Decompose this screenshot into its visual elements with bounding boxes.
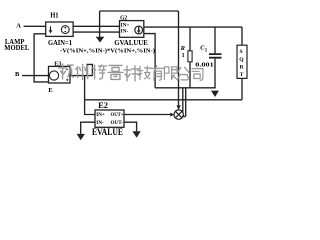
svg-text:1: 1 (205, 48, 208, 53)
svg-text:E3: E3 (54, 62, 61, 68)
wire SQRT bottom stem (241, 78, 243, 99)
wire E3 output (70, 75, 93, 77)
wire top bus (100, 10, 179, 12)
wire node B to E3 (22, 75, 50, 77)
svg-text:IN-: IN- (121, 29, 129, 35)
component C1 plates (209, 54, 222, 58)
wire H1 out- to G2 IN- (73, 31, 120, 33)
svg-text:MODEL: MODEL (4, 44, 29, 52)
arrowhead into multiplier left (170, 113, 174, 117)
svg-text:OUT+: OUT+ (111, 113, 124, 118)
component E3 box (49, 66, 71, 83)
watermark char 10 (192, 69, 203, 81)
watermark char 9 (177, 67, 189, 80)
wire E2 OUT+ to multiplier (124, 114, 171, 116)
watermark char 4 (108, 65, 123, 79)
svg-text:S: S (240, 49, 243, 55)
multiplier circle-X (174, 110, 183, 119)
wire R1 bottom stem (189, 62, 191, 88)
component SQRT box (237, 45, 247, 78)
wire bus B bottom rail (85, 99, 242, 101)
wire G2 out- down (144, 34, 155, 88)
wire vertical to ground g1 (99, 11, 101, 37)
watermark char 5 (124, 66, 139, 81)
svg-text:GAIN=1: GAIN=1 (48, 39, 72, 47)
wire V2b lineA to multiplier (182, 88, 186, 117)
H1 current arrow (49, 26, 53, 33)
ground g3 (77, 134, 85, 140)
E3 plus minus signs (66, 69, 69, 81)
component H1 box (46, 22, 73, 36)
wire C1 top stem (214, 27, 216, 54)
svg-text:GVALUUE: GVALUUE (114, 39, 148, 47)
watermark char 8 (164, 67, 177, 80)
svg-text:0.001: 0.001 (195, 62, 213, 69)
svg-text:R: R (240, 64, 245, 70)
watermark char 1 (59, 64, 74, 79)
svg-text:OUT-: OUT- (111, 121, 124, 126)
svg-text:E2: E2 (98, 100, 108, 110)
ground g4 (133, 131, 141, 138)
component R1 body (188, 51, 192, 62)
svg-text:IN+: IN+ (96, 113, 105, 118)
wire SQRT top stem (241, 27, 243, 45)
svg-text:E: E (48, 87, 52, 94)
arrowhead into multiplier top (176, 105, 180, 110)
svg-text:R: R (180, 45, 186, 52)
svg-text:T: T (240, 72, 244, 78)
component E2 box (95, 110, 124, 127)
wire main bus G2 out to SQRT (144, 26, 242, 28)
wire bump symbol (87, 64, 92, 75)
svg-text:IN-: IN- (96, 121, 104, 126)
wire R1 top stem (189, 27, 191, 51)
wire vertical V1 to multiplier (178, 11, 180, 106)
wire node A to H1 (24, 25, 46, 27)
svg-text:A: A (16, 23, 21, 30)
watermark char 7 (151, 66, 165, 80)
wire V2a bus to multiplier (182, 88, 184, 113)
svg-text:Q: Q (239, 57, 244, 63)
svg-text:B: B (15, 71, 20, 78)
wire H1 out+ to G2 IN+ (73, 25, 120, 27)
watermark char 3 (92, 65, 107, 79)
wire E2 OUT- to ground g4 (124, 122, 137, 131)
wire H1 lower pin loop to E3 (34, 34, 48, 82)
watermark (59, 64, 203, 81)
wire line A ground rail (155, 87, 216, 89)
ground g2 (211, 88, 219, 97)
H1 source circle (61, 26, 69, 34)
ground g1 (96, 37, 105, 43)
component G2 box (120, 21, 144, 38)
wire C1 bottom stem (214, 59, 216, 89)
watermark char 6 (137, 66, 151, 80)
watermark char 2 (76, 65, 88, 80)
svg-text:1: 1 (182, 53, 185, 59)
wire E2 IN- to ground g3 (81, 122, 95, 134)
E3 source circle (49, 71, 58, 80)
svg-text:-V(%IN+,%IN-)*V(%IN+,%IN-): -V(%IN+,%IN-)*V(%IN+,%IN-) (60, 48, 155, 55)
svg-text:H1: H1 (50, 12, 59, 19)
G2 source circle with arrow (135, 26, 143, 34)
svg-text:EVALUE: EVALUE (92, 127, 123, 137)
svg-text:G2: G2 (120, 15, 127, 22)
wire E3 out down to E2 IN+ (85, 76, 95, 115)
